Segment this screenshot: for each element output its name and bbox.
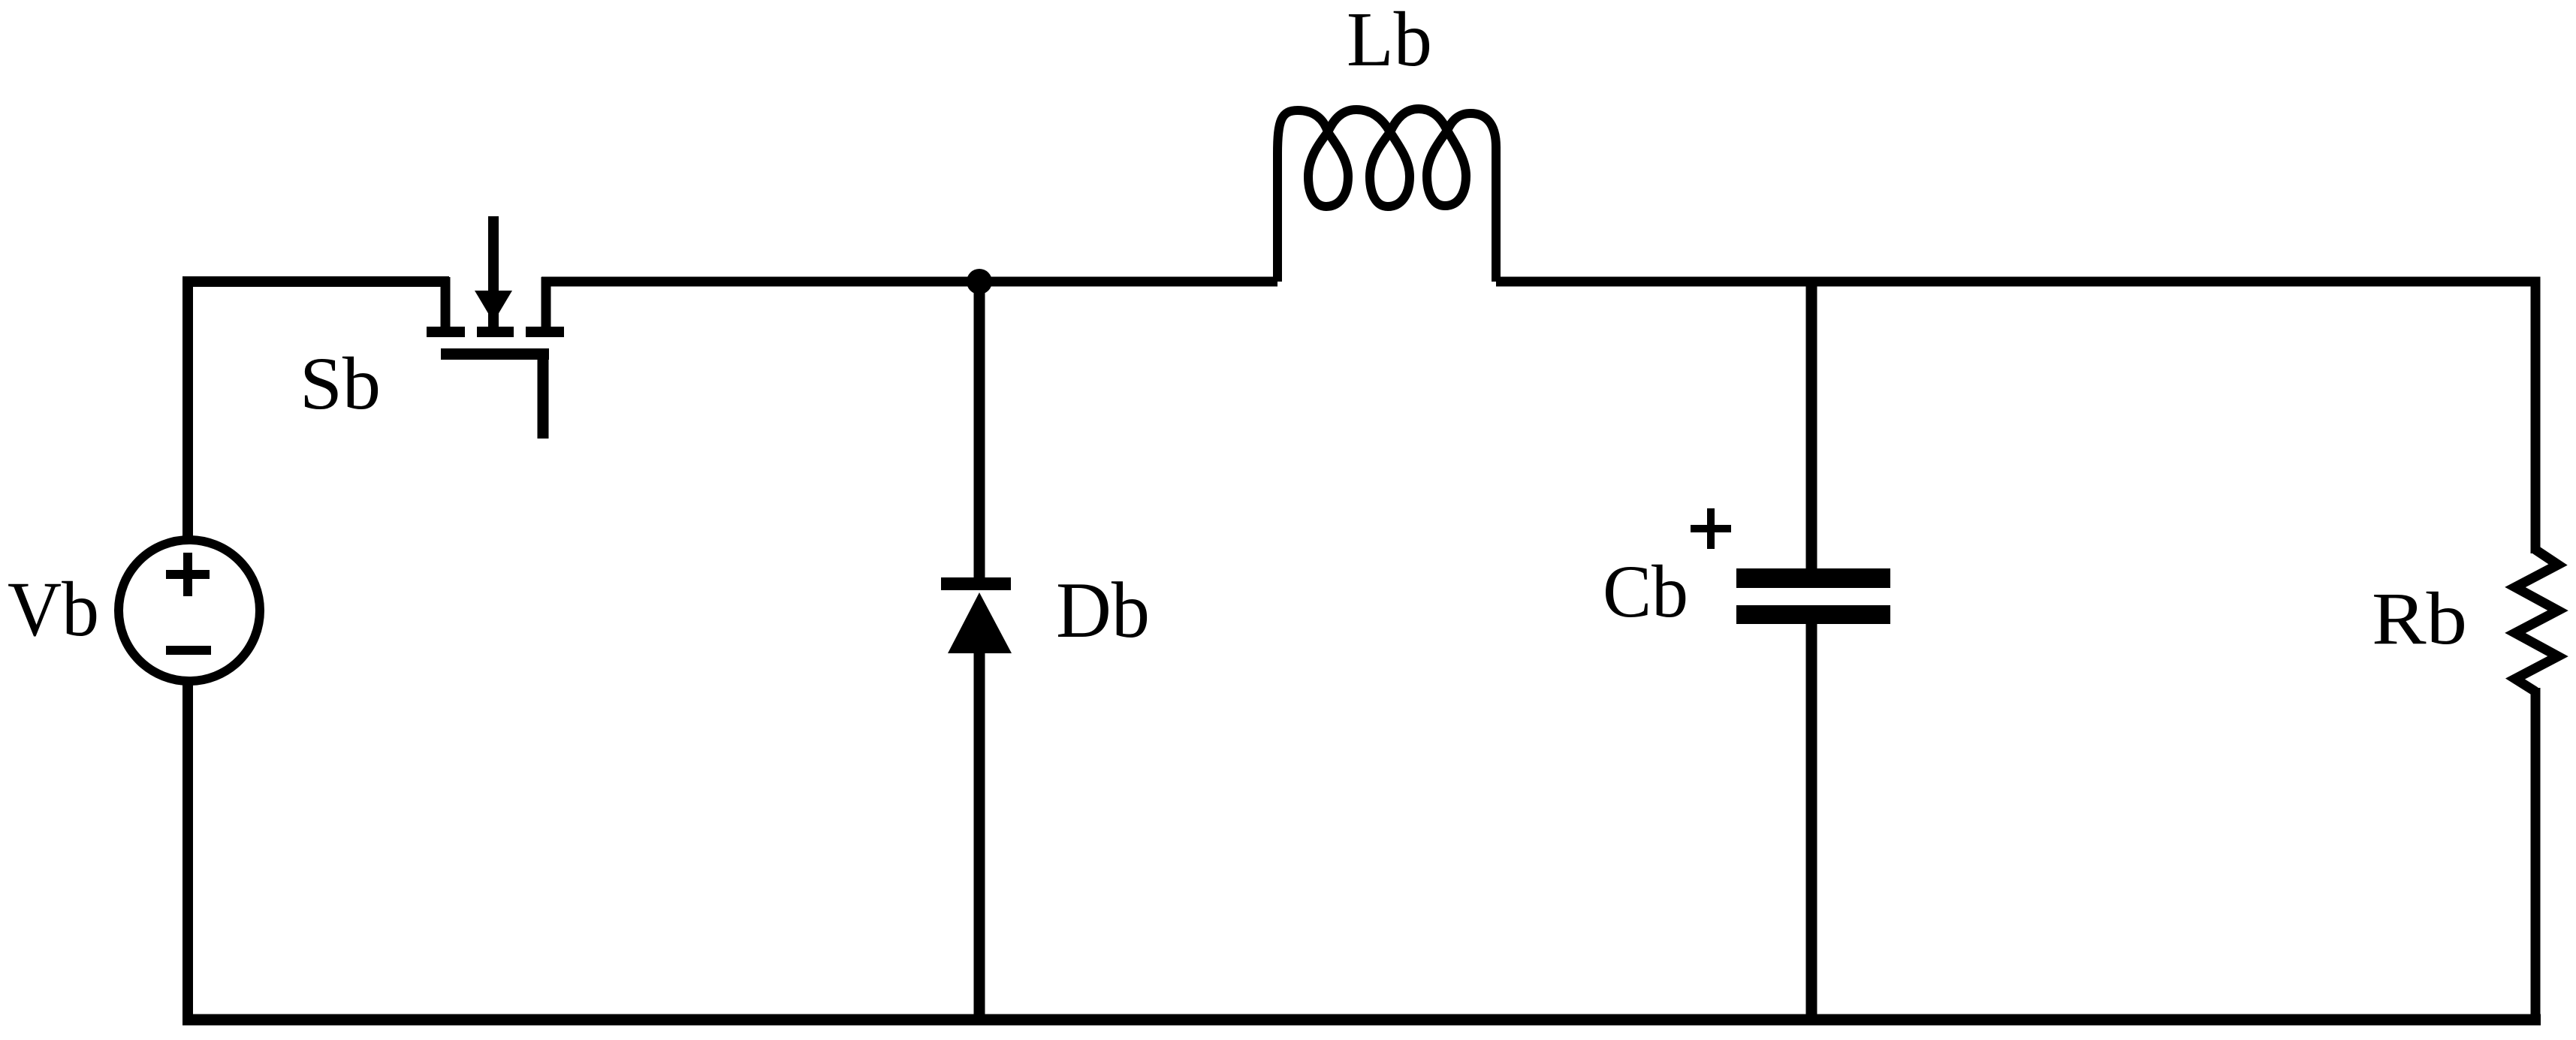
diode Db cathode bar <box>941 577 1011 590</box>
transistor Sb: gate bar <box>441 348 549 360</box>
svg-text:Cb: Cb <box>1603 550 1688 633</box>
transistor Sb: left drain stub <box>441 277 451 327</box>
wire: Vb bottom to bottom rail <box>182 681 193 1025</box>
transistor Sb: left contact bar <box>427 327 465 337</box>
transistor Sb: body arrow head <box>475 291 512 322</box>
wire: bottom rail <box>182 1014 2541 1026</box>
capacitor Cb bottom plate <box>1736 605 1890 624</box>
svg-text:Vb: Vb <box>8 566 99 653</box>
diode Db anode triangle <box>948 592 1012 653</box>
transistor Sb: middle contact bar <box>477 327 514 337</box>
svg-text:Db: Db <box>1056 566 1150 654</box>
wire: Sb source to node A and inductor <box>541 277 1277 287</box>
resistor Rb zigzag <box>2515 550 2558 692</box>
transistor Sb: right source stub <box>541 277 551 327</box>
wire: Rb bottom to bottom rail <box>2531 688 2541 1025</box>
capacitor Cb polarity plus <box>1691 508 1731 549</box>
svg-text:Sb: Sb <box>300 342 381 425</box>
svg-text:Rb: Rb <box>2372 577 2467 660</box>
wire: node A down to diode Db cathode <box>974 282 985 578</box>
capacitor Cb top plate <box>1736 568 1890 588</box>
transistor Sb: gate lead down <box>538 357 549 439</box>
wire: diode Db anode to bottom rail <box>974 650 985 1025</box>
wire: inductor Lb to top-right corner and down to Rb <box>1496 282 2535 553</box>
inductor Lb coil <box>1277 109 1496 282</box>
wire: left rail top + top wire to Sb drain <box>188 282 449 540</box>
svg-text:Lb: Lb <box>1347 0 1432 83</box>
transistor Sb: body arrow shaft <box>488 216 499 328</box>
transistor Sb: right contact bar <box>526 327 564 337</box>
node A junction dot <box>967 269 992 294</box>
Vb plus sign <box>166 553 210 596</box>
Vb minus sign <box>166 646 211 655</box>
voltage source Vb circle <box>119 540 260 681</box>
wire: capacitor Cb top lead <box>1806 277 1817 570</box>
wire: capacitor Cb bottom lead <box>1806 622 1817 1025</box>
